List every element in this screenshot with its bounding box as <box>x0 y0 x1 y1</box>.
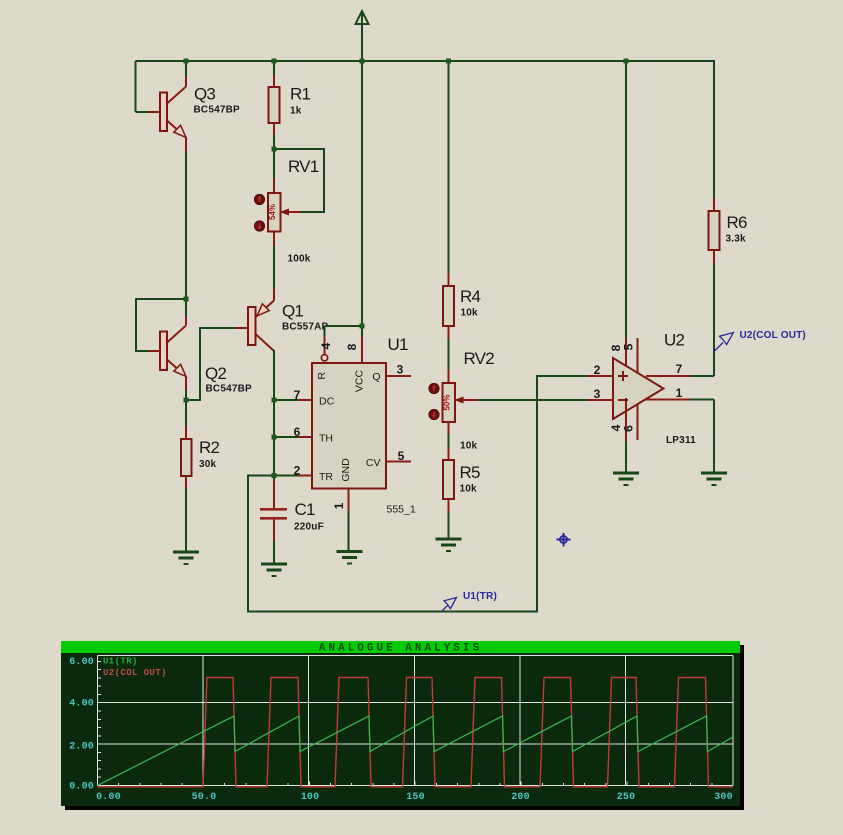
svg-text:10k: 10k <box>461 308 479 319</box>
svg-text:RV1: RV1 <box>288 157 319 176</box>
svg-text:50%: 50% <box>442 394 451 410</box>
svg-text:Q2: Q2 <box>205 364 226 383</box>
svg-text:R1: R1 <box>290 85 310 104</box>
svg-text:6.00: 6.00 <box>69 657 94 668</box>
svg-text:250: 250 <box>617 792 636 803</box>
svg-text:2: 2 <box>294 464 301 478</box>
svg-text:2: 2 <box>594 363 601 377</box>
svg-text:ANALOGUE ANALYSIS: ANALOGUE ANALYSIS <box>319 643 482 655</box>
svg-text:Q3: Q3 <box>194 85 215 104</box>
svg-text:555_1: 555_1 <box>387 504 416 516</box>
svg-text:3.3k: 3.3k <box>726 234 747 245</box>
svg-text:DC: DC <box>319 396 335 408</box>
svg-text:U2: U2 <box>664 331 684 350</box>
svg-text:BC547BP: BC547BP <box>194 105 241 116</box>
svg-text:7: 7 <box>676 362 683 376</box>
svg-text:100: 100 <box>301 792 320 803</box>
svg-text:5: 5 <box>622 343 636 350</box>
svg-text:RV2: RV2 <box>464 349 495 368</box>
svg-text:BC557AP: BC557AP <box>282 322 329 333</box>
svg-text:U1(TR): U1(TR) <box>463 591 497 602</box>
svg-text:R: R <box>316 372 328 380</box>
svg-text:10k: 10k <box>460 484 478 495</box>
svg-text:5: 5 <box>398 449 405 463</box>
svg-text:LP311: LP311 <box>666 435 696 446</box>
svg-text:R5: R5 <box>460 463 480 482</box>
svg-text:54%: 54% <box>268 204 277 220</box>
svg-text:R2: R2 <box>199 438 219 457</box>
svg-text:1: 1 <box>676 386 683 400</box>
svg-text:BC547BP: BC547BP <box>206 384 253 395</box>
svg-text:0.00: 0.00 <box>69 782 94 793</box>
svg-text:2.00: 2.00 <box>69 742 94 753</box>
svg-text:7: 7 <box>294 388 301 402</box>
svg-text:TR: TR <box>319 471 333 483</box>
svg-text:8: 8 <box>345 343 359 350</box>
svg-text:6: 6 <box>622 425 636 432</box>
svg-text:100k: 100k <box>288 254 311 265</box>
svg-text:U2(COL OUT): U2(COL OUT) <box>103 668 167 678</box>
svg-text:150: 150 <box>406 792 425 803</box>
svg-text:U2(COL OUT): U2(COL OUT) <box>740 330 806 341</box>
svg-text:C1: C1 <box>295 500 315 519</box>
svg-text:0.00: 0.00 <box>96 792 121 803</box>
svg-text:TH: TH <box>319 433 333 445</box>
svg-text:30k: 30k <box>199 459 217 470</box>
svg-text:R6: R6 <box>727 213 747 232</box>
svg-text:300: 300 <box>714 792 733 803</box>
svg-text:Q: Q <box>372 371 380 383</box>
svg-text:1: 1 <box>332 502 346 509</box>
svg-text:U1(TR): U1(TR) <box>103 657 138 667</box>
svg-text:4: 4 <box>319 342 333 349</box>
svg-text:6: 6 <box>294 425 301 439</box>
svg-text:200: 200 <box>511 792 530 803</box>
svg-text:10k: 10k <box>460 441 478 452</box>
svg-text:4.00: 4.00 <box>69 699 94 710</box>
svg-text:R4: R4 <box>460 287 480 306</box>
svg-text:VCC: VCC <box>354 369 366 392</box>
svg-text:Q1: Q1 <box>282 302 303 321</box>
svg-text:3: 3 <box>594 387 601 401</box>
svg-text:U1: U1 <box>388 335 408 354</box>
svg-text:3: 3 <box>397 363 404 377</box>
svg-text:1k: 1k <box>290 106 302 117</box>
svg-text:50.0: 50.0 <box>192 792 217 803</box>
svg-text:GND: GND <box>340 458 352 482</box>
svg-text:220uF: 220uF <box>294 522 324 533</box>
svg-text:CV: CV <box>366 457 381 469</box>
